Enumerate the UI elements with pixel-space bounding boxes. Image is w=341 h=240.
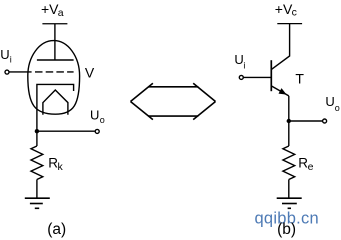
- resistor Rk: [31, 146, 43, 180]
- svg-text:U: U: [0, 47, 9, 62]
- watermark qqibb.cn: [255, 209, 319, 227]
- wire collector lead: [272, 24, 290, 70]
- label V: [85, 64, 95, 80]
- label T: [295, 70, 304, 86]
- label Uo (b): [325, 94, 339, 113]
- svg-text:k: k: [58, 161, 64, 173]
- tube grid (dashed): [35, 71, 74, 73]
- svg-text:T: T: [295, 70, 304, 86]
- tube anode plate: [37, 59, 74, 61]
- wire Rk to ground: [36, 180, 38, 199]
- svg-text:c: c: [292, 6, 297, 18]
- wire output (a): [37, 130, 95, 132]
- svg-text:V: V: [85, 64, 95, 80]
- node emitter junction (b): [287, 119, 291, 123]
- supply rail bar (a): [42, 23, 67, 25]
- label Rk: [48, 155, 63, 173]
- tube heater filament: [43, 90, 68, 115]
- label (a): [47, 221, 66, 238]
- ground (b): [277, 198, 302, 208]
- label (b): [277, 221, 296, 238]
- svg-text:e: e: [308, 161, 314, 173]
- wire input (b): [244, 76, 272, 78]
- wire emitter lead: [288, 96, 290, 121]
- tube V envelope: [28, 41, 80, 115]
- supply rail bar (b): [277, 23, 302, 25]
- wire junction to Rk: [36, 131, 38, 146]
- symbol double arrow: [131, 83, 216, 119]
- terminal Ui (a): [5, 70, 9, 74]
- label +Va: [41, 1, 64, 19]
- ground (a): [25, 198, 50, 208]
- svg-text:i: i: [243, 60, 245, 70]
- svg-text:a: a: [58, 7, 64, 19]
- wire input (a): [9, 71, 31, 73]
- node cathode junction (a): [35, 129, 39, 133]
- svg-text:U: U: [325, 94, 334, 109]
- label Ui (b): [234, 52, 245, 70]
- wire output (b): [289, 120, 323, 122]
- terminal Uo (b): [323, 119, 327, 123]
- resistor Re: [283, 146, 295, 180]
- transistor T emitter with arrow: [271, 86, 289, 96]
- wire anode lead: [54, 24, 56, 60]
- transistor T base bar: [270, 60, 272, 91]
- label Uo (a): [90, 108, 105, 125]
- svg-text:U: U: [90, 108, 99, 123]
- tube cathode: [37, 84, 74, 131]
- svg-text:+V: +V: [41, 1, 59, 17]
- label Ui (a): [0, 47, 12, 65]
- svg-text:(b): (b): [277, 221, 296, 238]
- terminal Ui (b): [239, 75, 243, 79]
- svg-text:U: U: [234, 52, 243, 67]
- label +Vc: [275, 1, 297, 18]
- svg-text:o: o: [100, 115, 105, 125]
- svg-text:o: o: [335, 103, 340, 113]
- terminal Uo (a): [95, 129, 99, 133]
- svg-text:i: i: [10, 55, 12, 65]
- svg-text:(a): (a): [47, 221, 66, 238]
- label Re: [298, 155, 313, 173]
- wire junction to Re: [288, 121, 290, 146]
- svg-text:+V: +V: [275, 1, 293, 17]
- wire Re to ground: [288, 180, 290, 199]
